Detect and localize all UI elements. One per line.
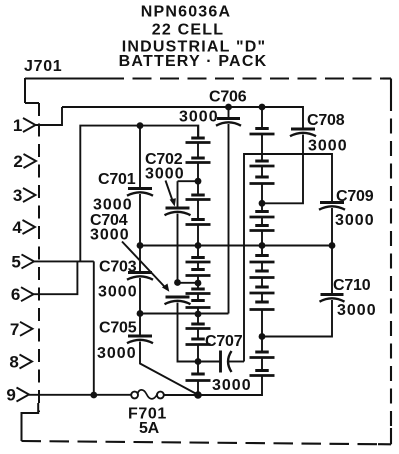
capacitor C704	[165, 297, 191, 304]
svg-text:2: 2	[13, 152, 22, 171]
junction: right column on top rail	[259, 104, 266, 111]
battery cell 20 (right column)	[250, 302, 275, 310]
capacitor C703	[127, 273, 153, 280]
battery cell 15 (right column)	[250, 212, 275, 218]
connector J701 dashed outline, top-left notch (solid)	[25, 78, 39, 103]
pin 2 of J701	[13, 152, 36, 171]
connector J701 dashed outline, bottom edge	[22, 441, 392, 444]
pin 5 of J701	[11, 252, 34, 271]
battery cell 8 (center column)	[186, 301, 211, 308]
wire: pin 5 lead	[34, 260, 94, 262]
pin 1 of J701	[13, 116, 36, 135]
svg-text:3: 3	[13, 186, 22, 205]
wire: battery-top rail from riser x80 to center column corner	[80, 126, 198, 262]
value 3000 (C702)	[145, 166, 185, 183]
battery cell 6 (center column)	[186, 270, 211, 276]
svg-text:3000: 3000	[145, 166, 185, 183]
junction: center column node y361.5 (C707 tap)	[195, 358, 202, 365]
wire: bottom rail junction to right column riser	[198, 376, 262, 396]
wire: right battery column leads	[261, 107, 263, 371]
junction: C708 bottom on right column	[259, 200, 266, 207]
svg-text:6: 6	[11, 285, 20, 304]
value 3000 (C708)	[308, 138, 348, 155]
connector J701 dashed outline, bottom-left notch	[22, 403, 39, 441]
label C709	[336, 188, 374, 205]
battery cell 10 (center column)	[186, 339, 211, 345]
junction: C701 tap on battery-top rail	[137, 122, 144, 129]
wire: fuse to center-bottom junction	[164, 394, 198, 396]
leader arrow to C702 capacitor	[166, 181, 176, 207]
svg-text:C701: C701	[98, 171, 136, 188]
capacitor C706	[216, 119, 241, 126]
capacitor C709	[319, 203, 345, 210]
svg-text:3000: 3000	[93, 197, 133, 214]
capacitor C708	[290, 129, 316, 136]
wire: bus y313.5 from C703/C705 junction to C706 lead	[140, 313, 229, 315]
capacitor C710	[320, 295, 345, 302]
junction: C702/C704 node	[174, 279, 181, 286]
wire: C701 to C703 (junction at y245.5)	[139, 194, 141, 272]
battery cell 11 (center column)	[186, 374, 211, 381]
svg-text:NPN6036A: NPN6036A	[141, 4, 232, 21]
title line 4: BATTERY PACK	[119, 53, 268, 70]
label C708	[307, 112, 345, 129]
junction: C709/C710 node on bus y245.5	[329, 242, 336, 249]
battery cell 18 (right column)	[250, 271, 275, 278]
connector J701 dashed outline, right edge	[390, 79, 392, 445]
junction: center column node y283	[195, 280, 202, 287]
title line 1: NPN6036A	[141, 4, 232, 21]
wire: C708 bottom lead to right column node	[262, 135, 303, 204]
junction: C710 bottom on right column	[259, 333, 266, 340]
wire: C702 to C704 (junction at y282.5)	[177, 214, 179, 283]
battery cell 17 (right column)	[250, 256, 275, 263]
connector J701 reference label	[24, 58, 62, 75]
label C705	[99, 320, 137, 337]
pin 3 of J701	[13, 186, 36, 205]
battery cell 21 (right column)	[250, 352, 275, 358]
connector J701 dashed outline, top edge	[25, 77, 391, 79]
capacitor C702	[165, 208, 191, 215]
wire: C701 top lead from junction on battery-top rail	[139, 126, 141, 188]
battery cell 3 (center column)	[186, 195, 211, 200]
pin 6 of J701	[11, 285, 34, 304]
junction: center column on bus y245.5	[195, 242, 202, 249]
value 3000 (C705)	[97, 345, 137, 362]
title line 2: 22 CELL	[152, 22, 224, 39]
battery cell 12 (right column)	[250, 129, 275, 135]
value 5A (F701)	[139, 420, 160, 437]
svg-text:9: 9	[6, 386, 15, 405]
wire: C710 bottom lead to right column node	[262, 300, 332, 337]
label F701	[128, 406, 167, 423]
pin 9 of J701	[6, 386, 29, 405]
leader arrow to C704 capacitor	[122, 242, 169, 292]
battery cell 7 (center column)	[186, 289, 211, 294]
label C702	[145, 151, 183, 168]
battery cell 4 (center column)	[186, 220, 211, 225]
wire: C707/C709 top bus	[244, 154, 332, 362]
pin 7 of J701	[10, 320, 33, 339]
battery cell 13 (right column)	[250, 161, 275, 166]
junction: right column on bus y245.5	[259, 242, 266, 249]
label C706	[209, 89, 247, 106]
junction: bottom rail center node	[194, 391, 202, 399]
wire: C706 long lead down to y313.5 bus	[228, 124, 230, 314]
wire: pin 5/6 riser down to bottom rail	[93, 261, 95, 395]
label C701	[98, 171, 136, 188]
svg-text:8: 8	[9, 353, 18, 372]
value 3000 (C706)	[179, 109, 219, 126]
value 3000 (C709)	[335, 212, 375, 229]
value 3000 (C704)	[90, 227, 130, 244]
junction: pin5/6 riser on bottom rail	[90, 392, 97, 399]
junction: center column on bus y313.5	[195, 311, 202, 318]
connector J701 dashed outline, left edge	[38, 103, 40, 412]
battery cell 5 (center column)	[186, 258, 211, 263]
svg-text:BATTERY · PACK: BATTERY · PACK	[119, 53, 268, 70]
svg-text:C708: C708	[307, 112, 345, 129]
wire: C706 top lead from top rail	[228, 107, 230, 118]
junction: C703/C705 node on bus y313.5	[137, 310, 144, 317]
svg-text:C706: C706	[209, 89, 247, 106]
svg-text:3000: 3000	[335, 212, 375, 229]
junction: center column node y181 (C702 top)	[195, 178, 202, 185]
wire: C703 to C705	[139, 278, 141, 336]
svg-text:7: 7	[10, 320, 19, 339]
wire: top rail (pin 1 net) to C708 corner	[62, 107, 303, 128]
battery cell 2 (center column)	[186, 158, 211, 163]
value 3000 (C707)	[212, 377, 252, 394]
label C707	[205, 333, 243, 350]
svg-text:5: 5	[11, 252, 20, 271]
svg-text:C709: C709	[336, 188, 374, 205]
battery cell 22 (right column)	[250, 371, 275, 376]
wire: pin 9 lead to fuse	[29, 394, 131, 396]
svg-text:4: 4	[12, 218, 22, 237]
label C704	[90, 212, 128, 229]
wire: C702 top stub to center column node	[178, 180, 199, 182]
wire: C709 to C710 (junction at y245.5)	[331, 208, 333, 294]
wire: C705 bottom lead, diagonal to bottom-rail junction	[140, 342, 198, 395]
svg-text:5A: 5A	[139, 420, 160, 437]
capacitor C705	[127, 336, 153, 343]
svg-text:J701: J701	[24, 58, 62, 75]
battery cell 19 (right column)	[250, 287, 275, 293]
battery cell 14 (right column)	[250, 177, 275, 184]
label C703	[99, 259, 137, 276]
svg-text:3000: 3000	[97, 345, 137, 362]
wire: C702 top lead	[177, 181, 179, 207]
battery cell 9 (center column)	[186, 324, 211, 329]
title line 3: INDUSTRIAL "D"	[122, 39, 267, 56]
pin 4 of J701	[12, 218, 35, 237]
svg-text:C703: C703	[99, 259, 137, 276]
wire: C707 left lead from center column node	[198, 361, 220, 363]
fuse F701	[131, 390, 164, 399]
label C710	[333, 277, 371, 294]
svg-text:3000: 3000	[337, 302, 377, 319]
wire: C704 bottom lead and stub to center column node	[178, 303, 199, 362]
svg-text:3000: 3000	[90, 227, 130, 244]
value 3000 (C701)	[93, 197, 133, 214]
svg-text:C705: C705	[99, 320, 137, 337]
svg-text:3000: 3000	[308, 138, 348, 155]
junction: C701/C703 node on bus y245.5	[137, 242, 144, 249]
svg-text:C710: C710	[333, 277, 371, 294]
svg-text:C707: C707	[205, 333, 243, 350]
battery cell 16 (right column)	[250, 226, 275, 231]
value 3000 (C710)	[337, 302, 377, 319]
svg-text:3000: 3000	[98, 284, 138, 301]
junction: C706 on top rail	[225, 104, 232, 111]
capacitor C701	[127, 189, 153, 196]
wire: pin 6 lead and riser up to pin 5 wire	[34, 261, 78, 294]
wire: center battery column leads	[197, 126, 199, 395]
battery cell 1 (center column)	[186, 138, 211, 143]
wire: stub from C702/C704 junction to center column node	[178, 282, 199, 284]
pin 8 of J701	[9, 353, 32, 372]
capacitor C707 (horizontal)	[221, 351, 245, 373]
wire: pin 1 to top rail riser	[36, 107, 63, 125]
svg-text:3000: 3000	[212, 377, 252, 394]
svg-text:22 CELL: 22 CELL	[152, 22, 224, 39]
svg-text:3000: 3000	[179, 109, 219, 126]
value 3000 (C703)	[98, 284, 138, 301]
svg-text:1: 1	[13, 116, 22, 135]
wire: bus y245.5 across columns	[140, 245, 332, 247]
